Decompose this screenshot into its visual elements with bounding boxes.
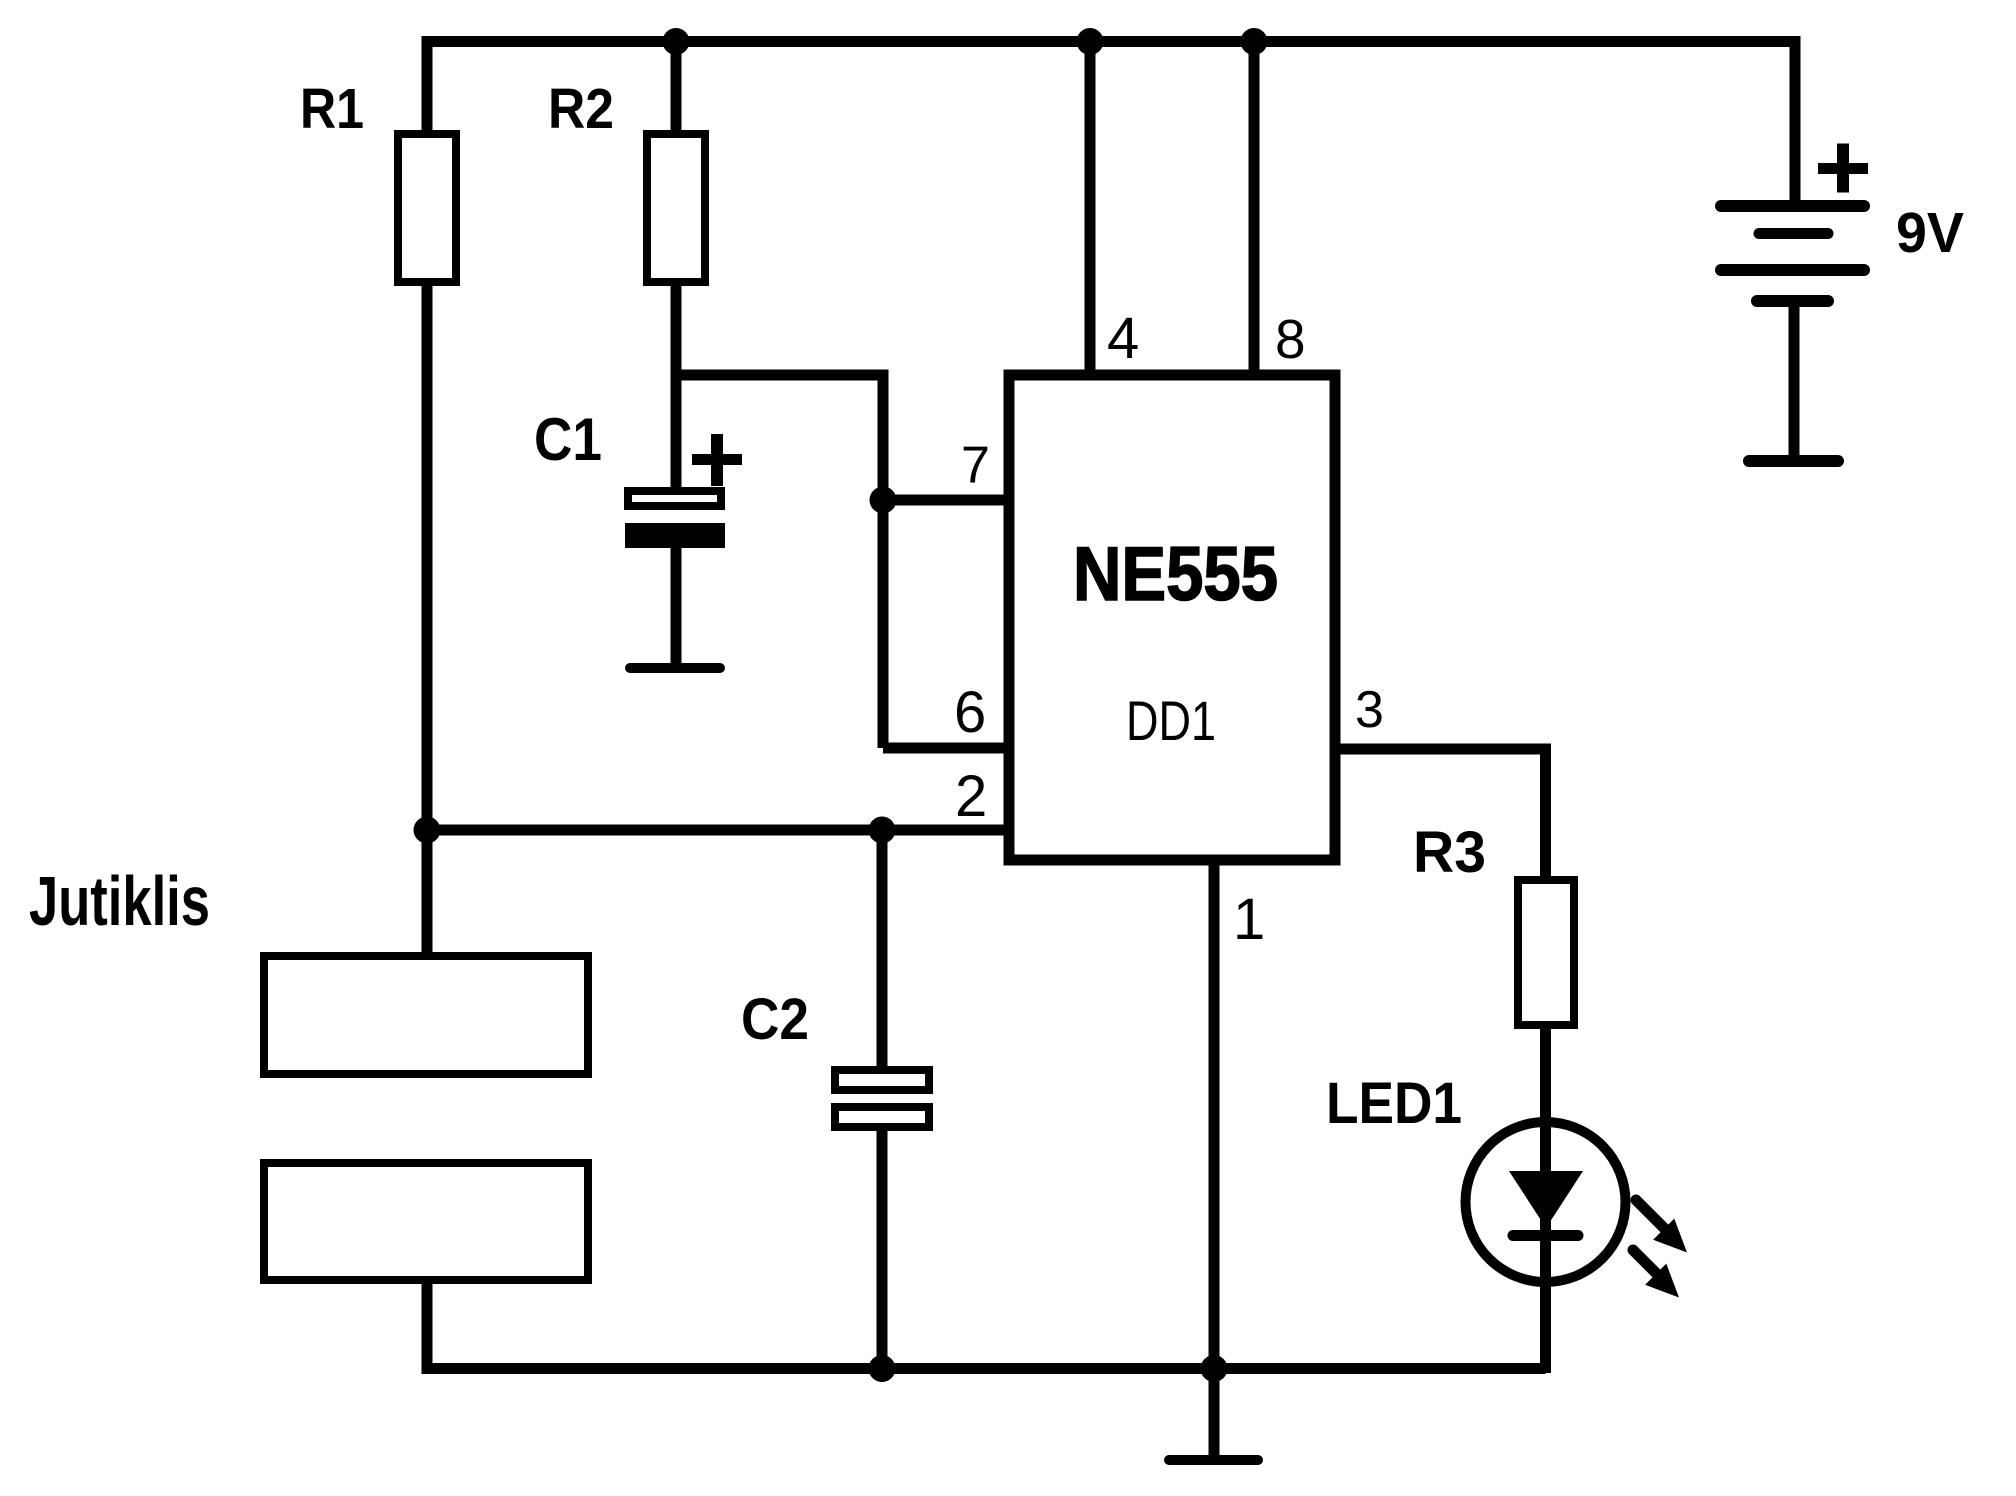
wire: R2 bottom right-angle over to pins 7/6 vertical link <box>676 36 883 748</box>
node: junction dot pin 8 to top rail <box>1241 28 1268 55</box>
wire: pin 6 stub <box>883 743 1009 754</box>
LED1 light arrow upper <box>1636 1200 1664 1228</box>
svg-text:R2: R2 <box>548 77 614 141</box>
wire: pin 3 out to R3 top <box>1335 749 1546 880</box>
capacitor C1 positive plate <box>628 491 721 506</box>
capacitor C2 lower plate <box>835 1107 929 1127</box>
svg-text:6: 6 <box>954 680 986 745</box>
ground bar <box>1169 1455 1258 1465</box>
svg-text:9V: 9V <box>1896 201 1964 265</box>
battery negative terminal bar <box>1749 455 1838 467</box>
capacitor C2 upper plate <box>835 1070 929 1090</box>
wire: pin 7 stub <box>883 495 1009 506</box>
svg-text:Jutiklis: Jutiklis <box>29 862 210 940</box>
svg-text:3: 3 <box>1355 681 1384 739</box>
node: junction dot pin2/C2 <box>869 817 896 844</box>
wire: pin 8 drop from top rail <box>1249 36 1260 375</box>
resistor R2 body <box>647 134 705 282</box>
wire: C1 top lead from R2 wire <box>671 375 682 493</box>
touch plate upper <box>264 956 588 1074</box>
resistor R3 body <box>1518 880 1574 1025</box>
C1 terminal bar <box>630 663 720 673</box>
svg-text:R3: R3 <box>1413 820 1486 885</box>
svg-text:DD1: DD1 <box>1126 689 1216 752</box>
svg-text:C1: C1 <box>534 406 602 473</box>
wire: pin 2 line from R1 junction to IC <box>427 825 1009 836</box>
svg-text:LED1: LED1 <box>1326 1071 1462 1136</box>
svg-text:C2: C2 <box>741 987 809 1052</box>
wire: C2 bottom lead <box>877 1131 888 1369</box>
node: junction dot C2/bottom rail <box>869 1355 896 1382</box>
node: junction dot pin1/bottom rail <box>1201 1355 1228 1382</box>
node: junction dot pin 4 to top rail <box>1077 28 1104 55</box>
wire: C1 bottom lead <box>671 546 682 668</box>
wire: bottom rail from lower touch plate to LED <box>427 1280 1546 1369</box>
svg-text:4: 4 <box>1107 306 1139 371</box>
wire: battery negative stem <box>1789 305 1800 461</box>
svg-text:8: 8 <box>1275 308 1306 370</box>
battery plate long top <box>1721 200 1864 212</box>
svg-text:7: 7 <box>961 437 990 495</box>
svg-text:NE555: NE555 <box>1073 532 1278 617</box>
battery plate short lower <box>1757 295 1828 307</box>
wire: top supply rail from R1 top across to battery positive drop <box>427 42 1795 207</box>
svg-text:2: 2 <box>955 764 987 829</box>
touch plate lower <box>264 1163 588 1280</box>
battery BT1 9V: plus sign <box>1818 163 1868 174</box>
LED1 light arrow lower <box>1633 1250 1658 1275</box>
LED1 cathode bar <box>1513 1230 1578 1241</box>
capacitor C1 plus sign <box>692 454 742 465</box>
svg-text:R1: R1 <box>300 77 364 141</box>
resistor R1 body <box>398 134 456 282</box>
LED LED1 circle <box>1466 1122 1626 1282</box>
capacitor C1 negative plate <box>625 523 725 548</box>
battery plate short <box>1759 228 1828 239</box>
node: junction dot R2 to top rail <box>663 28 690 55</box>
node: junction dot pin2/R1 <box>414 817 441 844</box>
wire: pin 1 drop from IC to ground <box>1209 860 1220 1460</box>
svg-text:1: 1 <box>1233 887 1265 952</box>
battery plate long lower <box>1721 264 1864 276</box>
op-amp/IC U1 NE555 box <box>1009 375 1335 860</box>
wire: pin 4 drop from top rail <box>1085 36 1096 375</box>
node: junction dot pin 7 <box>870 487 897 514</box>
wire: R3 bottom through LED to bottom rail <box>1540 1025 1551 1373</box>
wire: R1 bottom down through pin2 junction to upper touch plate <box>422 282 433 956</box>
LED1 triangle (anode) <box>1509 1171 1583 1228</box>
wire: C2 top lead from pin2 junction <box>877 830 888 1070</box>
